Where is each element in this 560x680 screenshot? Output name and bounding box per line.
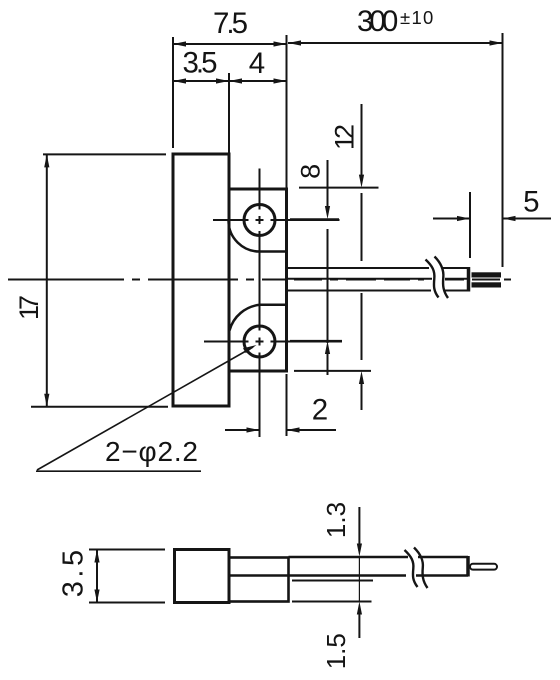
dimension 17 (31, 154, 168, 406)
hole H1 upper (2-dia 2.2) (244, 205, 275, 236)
svg-text:3.5: 3.5 (182, 47, 217, 80)
cable bottom edge (front view) (287, 290, 468, 292)
dimension 300 +/-10 (288, 33, 503, 267)
lower strip top line (side view) (292, 580, 373, 582)
cable break mark (side view) (405, 548, 428, 589)
hole H2 lower (2-dia 2.2) (244, 326, 275, 357)
svg-text:3.5: 3.5 (58, 546, 90, 597)
cable bottom edge / divider (side view) (229, 574, 468, 576)
svg-text:4: 4 (249, 47, 265, 80)
leader 2-dia2.2 (36, 345, 257, 471)
hole H2 crosshair horizontal (204, 341, 342, 343)
dimension 1.3 (cable upper thickness) (357, 507, 362, 601)
svg-text:17: 17 (14, 296, 44, 320)
svg-text:12: 12 (330, 125, 360, 150)
cable top edge (front view) (287, 267, 468, 269)
dimension 12 (plate P2 height) (294, 104, 379, 410)
dimension 5 (stripped length) (433, 192, 551, 258)
cable sheath end (side view) (466, 556, 470, 577)
hole H1 crosshair horizontal (213, 219, 340, 221)
bare conductor upper (front view) (472, 272, 502, 277)
svg-text:±10: ±10 (400, 7, 435, 28)
svg-text:7.5: 7.5 (213, 7, 248, 40)
dimension 1.5 (cable lower thickness) (357, 602, 362, 639)
cable sheath end edge (front view) (467, 267, 471, 292)
svg-text:8: 8 (296, 164, 326, 179)
cable top edge (side view) (289, 556, 469, 558)
cable break mark (front view) (426, 257, 449, 299)
horizontal centreline (chain line) (8, 279, 511, 281)
svg-text:2: 2 (312, 394, 328, 427)
svg-text:300: 300 (357, 5, 398, 38)
svg-text:5: 5 (523, 186, 539, 219)
svg-text:1.3: 1.3 (321, 502, 351, 538)
boss arc around lower hole (230, 305, 287, 331)
svg-text:1.5: 1.5 (321, 633, 351, 669)
lower strip bottom line (side view) (292, 601, 372, 603)
dimension 4 (229, 78, 287, 83)
cable mid line (front view) (287, 278, 468, 280)
dimension 3.5 (top) (173, 78, 229, 83)
dimension 8 (hole pitch) (290, 160, 342, 375)
body block (side view) (175, 550, 230, 603)
dimension 3.5 (side view height) (89, 550, 165, 603)
boss arc around upper hole (229, 221, 287, 252)
dimension 7.5 (173, 35, 287, 189)
dimension 2 (hole to edge) (225, 374, 336, 436)
plate P2 (mounting block with holes, front view) (229, 189, 287, 371)
step block (side view) (229, 558, 289, 602)
bare wire tip (side view) (470, 564, 497, 570)
plate P1 (left block, front view) (173, 154, 229, 406)
bare conductor lower (front view) (472, 282, 502, 287)
hole centre vertical line (259, 169, 261, 438)
svg-text:2−φ2.2: 2−φ2.2 (105, 436, 199, 467)
